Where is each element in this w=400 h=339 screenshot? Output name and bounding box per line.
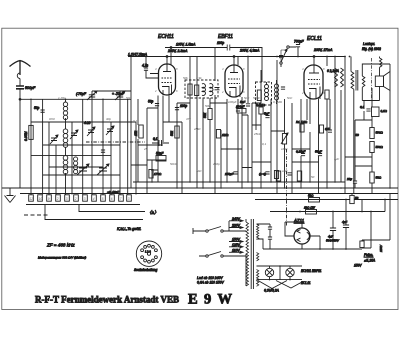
wire x158 bbox=[157, 96, 159, 183]
svg-text:110V: 110V bbox=[232, 248, 240, 252]
resistor R T2 damping bbox=[257, 90, 261, 101]
capacitor C 4.7n bbox=[142, 57, 158, 79]
svg-text:2: 2 bbox=[154, 89, 157, 93]
svg-text:500Ω: 500Ω bbox=[376, 145, 384, 149]
svg-text:50nF: 50nF bbox=[156, 152, 164, 156]
ganged tuning dash-dot link bbox=[86, 141, 145, 143]
transformer T-mains HV secondary bbox=[257, 224, 259, 240]
svg-text:3: 3 bbox=[84, 197, 86, 201]
svg-text:0,1: 0,1 bbox=[133, 119, 138, 123]
svg-text:50p: 50p bbox=[34, 106, 40, 110]
tube pin digits V1 bbox=[154, 67, 325, 95]
capacitor C det bypass bbox=[287, 173, 291, 175]
coil L4 oscillator bbox=[74, 157, 78, 174]
horizontal links detector block bbox=[242, 103, 310, 168]
wire power top rail y199.5 bbox=[255, 199, 398, 201]
svg-text:250pF: 250pF bbox=[224, 172, 234, 176]
svg-text:125V: 125V bbox=[232, 243, 241, 247]
IF transformer T1 between ECH11 and EBF11 bbox=[185, 80, 218, 98]
capacitor C 50pF left bbox=[34, 106, 45, 112]
variable capacitor C-var1 with arrow bbox=[77, 164, 89, 175]
svg-text:0,1Ω: 0,1Ω bbox=[381, 109, 388, 113]
resistor R 50k bbox=[170, 126, 179, 138]
svg-text:203V, 4,3mA: 203V, 4,3mA bbox=[239, 49, 260, 53]
resistor R 50 power bbox=[350, 195, 359, 203]
svg-text:50k: 50k bbox=[203, 112, 207, 118]
speaker LS1 bbox=[375, 72, 390, 91]
wire T2 leads bbox=[262, 75, 277, 104]
wire speaker return bbox=[362, 64, 390, 188]
transformer T-mains 4V secondary bbox=[257, 253, 259, 261]
svg-text:100p: 100p bbox=[217, 41, 224, 45]
svg-text:2: 2 bbox=[221, 90, 224, 94]
capacitor C T2 bbox=[281, 87, 285, 89]
junction dot antenna rail bbox=[19, 98, 21, 100]
capacitor C 100pF det bbox=[236, 105, 246, 114]
wire x197 bbox=[196, 57, 198, 189]
capacitor C tone2 bbox=[279, 50, 288, 62]
wire x318 bbox=[318, 99, 320, 195]
wire vertical x42.6 bbox=[42, 99, 44, 194]
resistor R 50k mid bbox=[203, 109, 212, 120]
resistor R-ant 0.05M vertical bbox=[24, 125, 33, 141]
svg-text:7: 7 bbox=[120, 197, 122, 201]
svg-text:1kΩ 1W: 1kΩ 1W bbox=[304, 206, 316, 210]
svg-text:3: 3 bbox=[128, 197, 130, 201]
resistor R 1M mid bbox=[216, 130, 229, 139]
resistor R 0.1M det bbox=[256, 103, 266, 114]
capacitor C n=0 bbox=[259, 172, 270, 176]
svg-text:3,9k: 3,9k bbox=[196, 76, 202, 80]
wire x221 bbox=[220, 130, 222, 188]
wires hv to rectifier bbox=[257, 224, 271, 249]
svg-text:25kΩ: 25kΩ bbox=[253, 132, 262, 136]
svg-text:4: 4 bbox=[93, 197, 95, 201]
svg-text:500/550V: 500/550V bbox=[326, 239, 340, 243]
fuse F1 bbox=[354, 244, 383, 268]
svg-text:Feins.: Feins. bbox=[364, 253, 373, 257]
svg-text:(-70pF: (-70pF bbox=[76, 92, 87, 96]
resistor R 0.5M bbox=[319, 125, 329, 133]
svg-text:Lad ab 110 240V: Lad ab 110 240V bbox=[197, 276, 223, 280]
capacitor C 50nF out bbox=[315, 150, 322, 156]
wire x345 B+ right bbox=[344, 57, 346, 195]
svg-text:50: 50 bbox=[355, 196, 359, 200]
svg-text:0.05M: 0.05M bbox=[24, 131, 28, 141]
trimmer capacitor CT3 bbox=[87, 127, 95, 136]
svg-text:50: 50 bbox=[311, 175, 315, 179]
tube socket diagram bbox=[136, 241, 161, 266]
band switch assembly S1 contacts bbox=[29, 195, 132, 201]
capacitor C 5nF det bbox=[264, 112, 270, 118]
wire vertical x120 bbox=[119, 94, 121, 195]
resistor R 45 1k bbox=[276, 171, 280, 181]
svg-text:1MΩ: 1MΩ bbox=[222, 133, 229, 137]
resistor R 500 upper bbox=[370, 128, 384, 139]
wire x310 bbox=[309, 99, 311, 183]
svg-text:6: 6 bbox=[111, 197, 113, 201]
capacitor C left2 bbox=[101, 150, 105, 152]
junction dots ECH11 bbox=[166, 56, 168, 58]
capacitor C coupling y47 bbox=[217, 41, 230, 51]
svg-text:0,1: 0,1 bbox=[262, 142, 267, 146]
svg-text:5pF: 5pF bbox=[244, 96, 249, 100]
wire vertical x56 bbox=[55, 145, 57, 195]
wire x252 bbox=[251, 103, 253, 194]
coil L2 bbox=[63, 129, 68, 147]
resistor R screen zig1 bbox=[335, 68, 338, 87]
horizontal links mid-left block bbox=[138, 108, 182, 170]
svg-text:500pF: 500pF bbox=[25, 86, 36, 90]
tone control switch S2 bbox=[280, 46, 296, 67]
svg-text:220V: 220V bbox=[231, 224, 241, 228]
wire power rail y211.5 bbox=[270, 211, 385, 213]
wire switch base line bbox=[26, 204, 140, 206]
svg-text:1 2 3: 1 2 3 bbox=[145, 250, 151, 254]
svg-text:Meßspannungen: 333 Ω/V (Multi: Meßspannungen: 333 Ω/V (Multizet) bbox=[38, 255, 86, 259]
wire extra horizontals midband bbox=[131, 103, 319, 165]
svg-text:50k: 50k bbox=[183, 76, 188, 80]
svg-text:50p: 50p bbox=[148, 100, 154, 104]
potentiometer P1 volume with arrow bbox=[281, 133, 288, 144]
transformer T-out primary coil bbox=[351, 72, 354, 90]
capacitor C 0.25uF bbox=[296, 150, 305, 156]
svg-text:3: 3 bbox=[66, 197, 68, 201]
resistor R speaker field zig bbox=[380, 57, 382, 77]
svg-text:170Ω: 170Ω bbox=[154, 172, 162, 176]
wire x163 tube lead bbox=[162, 96, 164, 143]
svg-text:1kΩ: 1kΩ bbox=[282, 169, 288, 173]
svg-text:0,1: 0,1 bbox=[153, 137, 158, 141]
wire x147 bbox=[146, 108, 148, 194]
svg-text:25: 25 bbox=[143, 147, 148, 151]
svg-text:105V, 1.5mA: 105V, 1.5mA bbox=[176, 43, 196, 47]
capacitor C extra2 bbox=[328, 130, 332, 132]
tube V2 EBF11 bbox=[218, 34, 243, 97]
wire x227 bbox=[226, 99, 228, 182]
svg-text:6,3V/0,3A: 6,3V/0,3A bbox=[264, 289, 280, 293]
capacitor C hf bypass 1 bbox=[268, 227, 272, 229]
coil T2 primary bbox=[265, 85, 269, 101]
coil T1 secondary bbox=[210, 84, 213, 96]
svg-text:240V: 240V bbox=[231, 217, 241, 221]
svg-text:〈a〉: 〈a〉 bbox=[147, 210, 159, 215]
wire x271 bbox=[270, 99, 272, 182]
transformer T-mains core bbox=[251, 219, 253, 289]
wire x261 bbox=[260, 70, 262, 188]
resistor R 15k bbox=[134, 125, 143, 138]
svg-text:500Ω: 500Ω bbox=[376, 131, 384, 135]
resistor R 5k smoothing bbox=[308, 194, 320, 203]
svg-text:2: 2 bbox=[74, 197, 77, 201]
rectifier tube V4 AZ11 bbox=[293, 218, 310, 244]
capacitor C IF bbox=[215, 88, 220, 90]
svg-text:250p: 250p bbox=[212, 162, 220, 166]
coil T1 primary bbox=[202, 84, 205, 96]
svg-text:R-F-T Fernmeldewerk Arnstadt V: R-F-T Fernmeldewerk Arnstadt VEB bbox=[35, 295, 179, 305]
svg-text:5kΩ: 5kΩ bbox=[308, 194, 314, 198]
trimmer capacitor CT1 bbox=[50, 135, 58, 144]
svg-text:ECH11: ECH11 bbox=[158, 34, 174, 40]
svg-text:2: 2 bbox=[56, 197, 59, 201]
coil L3 bbox=[63, 156, 68, 174]
svg-text:1MΩ: 1MΩ bbox=[281, 147, 288, 151]
wire lower bus y193.5 bbox=[20, 193, 398, 195]
resistor R osc 50k vertical bbox=[188, 84, 192, 95]
svg-text:4μF: 4μF bbox=[342, 220, 347, 224]
wire x242 bbox=[241, 97, 243, 188]
coil T2 secondary bbox=[275, 84, 279, 100]
svg-text:10: 10 bbox=[39, 197, 43, 201]
svg-text:47k: 47k bbox=[186, 117, 191, 121]
capacitor C 20uF bbox=[346, 177, 357, 183]
svg-text:50nF: 50nF bbox=[170, 162, 177, 166]
svg-text:50p: 50p bbox=[126, 96, 131, 100]
trimmer capacitor C -70pF b bbox=[115, 91, 125, 100]
resistor R1 1M bbox=[296, 120, 308, 132]
capacitor C tone 700pF bbox=[294, 40, 305, 57]
wire extra verticals midband bbox=[238, 57, 341, 183]
lamp LP2 dial bbox=[286, 268, 294, 276]
wire x169 tube lead bbox=[168, 96, 170, 123]
wires lamp diagonals bbox=[258, 281, 302, 289]
svg-text:ECH11 EBF11: ECH11 EBF11 bbox=[301, 269, 322, 273]
svg-text:100pF: 100pF bbox=[236, 105, 245, 109]
wire ECL11 anode to bus bbox=[313, 57, 315, 66]
resistor R 50 bbox=[370, 172, 382, 183]
lamp LP1 dial bbox=[265, 268, 273, 276]
svg-text:Sockelschaltung: Sockelschaltung bbox=[134, 268, 157, 272]
wire vertical x103 bbox=[102, 99, 104, 194]
resistor R 1k 1W bbox=[304, 206, 317, 215]
wire x277 bbox=[276, 60, 278, 194]
trimmer capacitor C -70pF a bbox=[87, 91, 97, 100]
junction dots buses bbox=[30, 56, 391, 250]
capacitor C4 4uF 500V bbox=[326, 212, 340, 247]
wire x210 bbox=[209, 98, 211, 182]
mains switch S3b lower bbox=[199, 252, 229, 258]
svg-text:(n=0): (n=0) bbox=[259, 172, 266, 176]
resistor R 170 7W vertical bbox=[149, 170, 162, 179]
svg-text:1kΩ: 1kΩ bbox=[196, 169, 202, 173]
wire ECH11 anode to top bus bbox=[166, 57, 168, 64]
ground chassis left bbox=[5, 188, 16, 203]
wire vertical x92 bbox=[91, 94, 93, 195]
wire trimmer top link y91 bbox=[92, 91, 131, 95]
svg-text:203V, 2.3mA: 203V, 2.3mA bbox=[167, 49, 188, 53]
resistor R matching box bbox=[372, 107, 388, 117]
wire x190 bbox=[189, 57, 191, 183]
capacitor C 0.1uF bbox=[152, 137, 169, 146]
transformer T-out secondary coil bbox=[362, 76, 365, 87]
svg-text:Lautspr.: Lautspr. bbox=[363, 42, 375, 46]
svg-text:0O0: 0O0 bbox=[49, 117, 55, 121]
junction dots lamps bbox=[269, 265, 291, 280]
wire x138 bbox=[137, 99, 139, 182]
wire vertical x72 bbox=[71, 122, 73, 195]
svg-text:50Ω: 50Ω bbox=[376, 176, 382, 180]
wire x215 bbox=[214, 95, 216, 194]
svg-text:150V: 150V bbox=[354, 264, 362, 268]
transformer T-mains primary winding bbox=[246, 222, 249, 286]
capacitor C hf bypass 2 bbox=[268, 237, 272, 239]
trimmer capacitor CT4 bbox=[106, 126, 114, 135]
svg-text:ECL11: ECL11 bbox=[301, 281, 311, 285]
svg-text:12: 12 bbox=[29, 197, 33, 201]
wire x248 bbox=[247, 57, 249, 183]
svg-text:+0 -10pF: +0 -10pF bbox=[107, 190, 119, 194]
capacitor C extra1 bbox=[236, 109, 240, 111]
svg-text:4,7n: 4,7n bbox=[142, 64, 148, 68]
resistor R osc2 3.9k vertical bbox=[195, 85, 199, 96]
wire EBF11 anode to bus bbox=[233, 57, 235, 66]
svg-text:EBF11: EBF11 bbox=[218, 34, 233, 40]
capacitor C-ant 500pF bbox=[16, 86, 36, 90]
wire AZ11 connections bbox=[270, 222, 320, 249]
svg-text:50pF: 50pF bbox=[253, 96, 260, 100]
wire hv bottom row bbox=[305, 246, 362, 249]
mains switch S3 bbox=[193, 227, 229, 235]
svg-text:50k: 50k bbox=[170, 130, 174, 136]
wire right column verticals bbox=[355, 88, 372, 194]
wire left horizontals bbox=[31, 122, 136, 175]
svg-text:K,M,L,Ta geöff.: K,M,L,Ta geöff. bbox=[117, 227, 141, 231]
label smudges scatter bbox=[49, 76, 339, 179]
wire vertical x49 bbox=[48, 122, 50, 195]
resistor R heater dropper bbox=[360, 241, 364, 248]
svg-text:4-20: 4-20 bbox=[84, 121, 91, 125]
svg-text:9: 9 bbox=[48, 197, 50, 201]
resistor R 500 lower bbox=[370, 142, 384, 153]
svg-text:2: 2 bbox=[301, 91, 304, 95]
tube V1 ECH11 bbox=[150, 34, 176, 95]
svg-text:100pF: 100pF bbox=[228, 100, 237, 104]
wire x292 bbox=[291, 103, 293, 194]
svg-text:ECL11: ECL11 bbox=[307, 36, 322, 42]
wire vertical x111 bbox=[110, 122, 112, 195]
wire x335 bbox=[334, 57, 336, 183]
svg-text:5nF: 5nF bbox=[240, 100, 245, 104]
wires T-out bbox=[351, 57, 390, 194]
svg-text:5: 5 bbox=[102, 197, 104, 201]
tube V3 ECL11 bbox=[304, 36, 323, 99]
capacitor C 100pF bbox=[175, 104, 187, 110]
antenna A1 bbox=[10, 61, 31, 79]
svg-text:250V: 250V bbox=[379, 244, 383, 253]
wire ECH11 second anode line y47.5 bbox=[165, 48, 262, 82]
svg-text:E 9 W: E 9 W bbox=[188, 292, 233, 308]
svg-text:203V, 27mA: 203V, 27mA bbox=[313, 48, 333, 52]
svg-text:⌀/1,25A: ⌀/1,25A bbox=[364, 259, 375, 263]
svg-text:+ -70pF: + -70pF bbox=[112, 92, 125, 96]
capacitor C 250pF bbox=[224, 172, 238, 176]
wire x284 bbox=[284, 99, 286, 188]
coil L1 antenna bbox=[63, 102, 67, 120]
wire x182 bbox=[181, 122, 183, 194]
svg-text:150V: 150V bbox=[232, 238, 241, 242]
svg-text:100p: 100p bbox=[180, 104, 187, 108]
wire x203 bbox=[202, 98, 204, 188]
svg-text:5nF: 5nF bbox=[264, 112, 269, 116]
wire B+ top bus y56.5 bbox=[128, 56, 345, 58]
wire x327 bbox=[326, 57, 328, 189]
capacitor C 0.1u speaker bbox=[360, 105, 371, 111]
variable capacitor C-var2 with arrow bbox=[97, 164, 109, 175]
svg-text:20μ: 20μ bbox=[346, 177, 352, 181]
svg-text:1,2V(7,3)mA: 1,2V(7,3)mA bbox=[128, 53, 148, 57]
dash-dot line speaker bbox=[371, 58, 373, 99]
wire vertical x127.7 bbox=[127, 99, 129, 194]
wire left rail y99 bbox=[20, 98, 131, 100]
voltage selector taps bbox=[229, 217, 243, 254]
wire vertical x136 bbox=[135, 122, 137, 195]
svg-text:0,6A ab 110 150V: 0,6A ab 110 150V bbox=[197, 281, 225, 285]
switch linkage bracket a bbox=[45, 205, 159, 220]
capacitor C 50nF box bbox=[156, 152, 166, 162]
transformer T-out core bbox=[356, 70, 358, 91]
svg-text:30p: 30p bbox=[106, 117, 111, 121]
wire x177 bbox=[176, 103, 178, 188]
resistor R screen zig2 bbox=[341, 68, 344, 87]
svg-text:5nF: 5nF bbox=[287, 96, 292, 100]
capacitor C 5nF bbox=[240, 100, 250, 106]
wires lamps bbox=[257, 266, 303, 280]
resistor R bottom mid bbox=[274, 171, 278, 179]
svg-text:Eig. (ω) 1902: Eig. (ω) 1902 bbox=[362, 47, 381, 51]
svg-text:700pF: 700pF bbox=[294, 40, 305, 44]
wire x152 bbox=[151, 160, 153, 182]
svg-text:50k: 50k bbox=[205, 104, 210, 108]
wire x131 tall bbox=[130, 57, 132, 189]
wire mid bus y182 right half bbox=[133, 181, 345, 183]
svg-text:ZF = 468 kHz: ZF = 468 kHz bbox=[46, 243, 75, 248]
capacitor C5 4uF bbox=[342, 200, 349, 247]
wire ground bus y188 bbox=[2, 187, 398, 189]
wire x301 bbox=[300, 99, 302, 188]
wire right column horizontals bbox=[345, 120, 372, 166]
svg-text:0,1MΩ: 0,1MΩ bbox=[273, 100, 283, 104]
svg-text:R1 1MΩ: R1 1MΩ bbox=[296, 120, 308, 124]
wire right power verticals bbox=[352, 194, 390, 249]
wires transformer ends bbox=[229, 219, 246, 286]
resistor R grid ECL11 bbox=[325, 90, 329, 99]
transformer T-mains 6.3V secondary bbox=[257, 270, 259, 287]
wire vertical x65 antenna coil lead bbox=[65, 99, 67, 194]
svg-text:50: 50 bbox=[356, 133, 360, 137]
capacitor C 50pF grid bbox=[148, 100, 159, 106]
trimmer capacitor CT2 bbox=[70, 130, 78, 139]
wire antenna down-lead bbox=[19, 79, 21, 189]
svg-text:15k: 15k bbox=[134, 130, 138, 136]
wire vertical x82.7 bbox=[82, 99, 84, 194]
switch linkage dashes bbox=[24, 214, 50, 216]
svg-text:2MΩ: 2MΩ bbox=[193, 127, 201, 131]
wire vertical x31 bbox=[30, 99, 32, 194]
IF transformer T2 box bbox=[256, 82, 272, 105]
svg-text:4μF: 4μF bbox=[334, 157, 339, 161]
resistor R 50 1k bbox=[297, 171, 301, 181]
potentiometer link dash-dot to mains switch bbox=[286, 149, 288, 226]
